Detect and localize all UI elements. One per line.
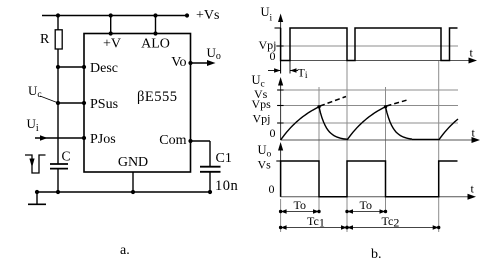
svg-text:To: To [360,198,373,212]
svg-text:b.: b. [371,247,382,262]
svg-text:Vs: Vs [258,158,272,172]
svg-text:Desc: Desc [90,61,118,76]
svg-text:Com: Com [159,133,186,148]
svg-text:0: 0 [269,182,275,196]
svg-text:10n: 10n [215,178,239,194]
svg-text:Tc2: Tc2 [382,214,400,230]
svg-text:C1: C1 [216,151,232,166]
svg-text:Tc1: Tc1 [307,214,325,230]
svg-text:ALO: ALO [141,37,170,52]
svg-text:+V: +V [103,37,121,52]
svg-text:C: C [62,149,71,164]
svg-text:PSus: PSus [90,97,118,112]
svg-text:0: 0 [270,49,276,63]
svg-text:a.: a. [120,243,130,258]
svg-text:GND: GND [118,155,148,170]
svg-text:+Vs: +Vs [196,8,219,23]
svg-text:Vo: Vo [171,55,186,70]
svg-text:PJos: PJos [90,132,116,147]
svg-text:0: 0 [270,126,276,140]
svg-text:To: To [294,198,307,212]
svg-text:Vps: Vps [252,97,272,111]
svg-text:Vpj: Vpj [253,111,271,125]
svg-text:R: R [40,32,50,47]
svg-text:βE555: βE555 [137,89,178,105]
